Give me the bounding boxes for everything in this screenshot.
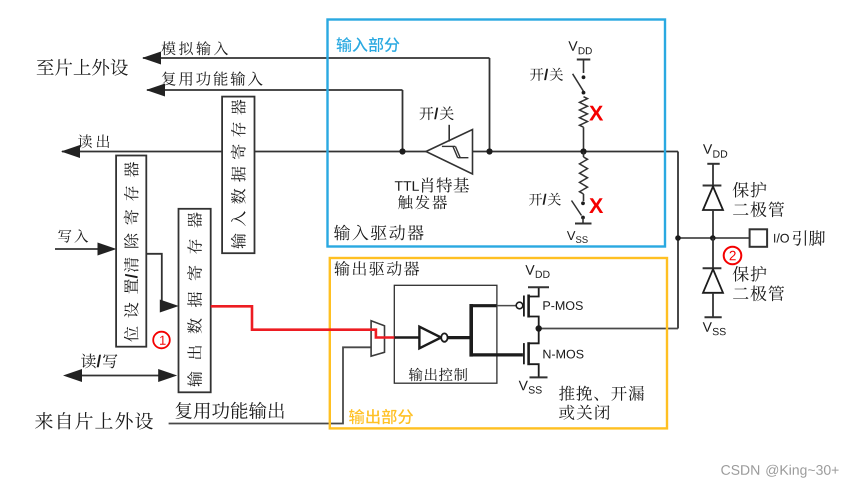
label 开/关 schmitt: [420, 106, 454, 120]
P-MOS channel bar: [527, 295, 530, 318]
schmitt trigger triangle: [426, 130, 473, 175]
label I/O 引脚: [774, 233, 789, 242]
wire alternate-function-input line: [147, 89, 403, 91]
input section frame (blue): [328, 20, 666, 247]
VDD label P-MOS: [525, 265, 534, 275]
label 保护 (lower): [733, 266, 767, 282]
label 至片上外设: [37, 59, 128, 76]
wire analog-input vertical drop: [489, 58, 491, 152]
arrowhead bit-set elbow into output data register: [160, 300, 179, 313]
VDD label protection diode: [703, 144, 712, 154]
wire SW2 to VSS: [582, 218, 584, 224]
wire inverter output (thick): [448, 336, 472, 339]
P-MOS source stub: [530, 287, 539, 296]
N-MOS gate bar: [523, 343, 525, 364]
arrowhead read/write left: [63, 369, 82, 382]
label 来自片上外设: [35, 412, 153, 430]
wire mos drain node to I/O bus: [539, 328, 678, 330]
VSS label protection diode: [703, 322, 712, 332]
label TTL肖特基: [395, 181, 419, 191]
wire R1 to input node: [583, 127, 585, 151]
VDD rail bar diode D1: [707, 163, 719, 165]
diode D1 triangle: [703, 187, 723, 211]
P-MOS drain stub: [530, 317, 539, 329]
label 触发器: [398, 195, 447, 209]
label N-MOS: [543, 350, 583, 359]
VSS label N-MOS: [519, 381, 528, 391]
I/O pin pad square: [750, 229, 768, 247]
node drain junction: [536, 325, 542, 331]
label 输出驱动器: [334, 261, 419, 276]
label 开/关 pull-up switch: [530, 68, 563, 81]
P-MOS gate bar: [523, 296, 525, 317]
switch SW2 lever: [572, 201, 582, 216]
diode D1 cathode bar: [703, 185, 722, 187]
label 推挽、开漏: [559, 386, 644, 401]
wire I/O line to diode D2: [712, 238, 714, 268]
circled 1 marker: [153, 332, 170, 349]
inverter U2 triangle: [419, 327, 441, 349]
label 二极管 (lower): [733, 286, 784, 302]
diode D2 triangle: [703, 269, 723, 293]
schmitt on/off control stem: [448, 125, 450, 142]
label 或关闭: [559, 405, 609, 420]
resistor R2 pull-down: [580, 157, 588, 194]
label 复用功能输入: [162, 71, 263, 86]
label 输出数据寄存器 (vertical): [187, 212, 202, 386]
VDD label pull-up: [568, 41, 577, 51]
mux selector trapezoid: [371, 321, 384, 357]
watermark CSDN @King~30+: [721, 465, 838, 478]
label 输入部分: [337, 37, 400, 52]
wire diode D1 to I/O line: [712, 210, 714, 238]
switch SW1 lower contact dot: [582, 91, 586, 95]
arrowhead read/write right: [158, 369, 177, 382]
wire VDD to diode D1: [712, 164, 714, 186]
output section frame (yellow): [330, 258, 667, 428]
resistor R1 pull-up: [580, 97, 588, 128]
red X pull-up disabled: [589, 106, 603, 121]
wire red output-data path: [211, 306, 396, 337]
wire alternate-function-output line: [169, 347, 371, 423]
diode D2 cathode bar: [703, 267, 722, 269]
label 保护 (upper): [733, 182, 767, 198]
gate drive bottom arm (thick): [470, 353, 523, 356]
node analog-input junction: [486, 148, 492, 154]
label 二极管 (upper): [733, 202, 784, 218]
N-MOS drain stub: [530, 329, 539, 344]
P-MOS gate bubble: [516, 302, 523, 309]
wire to P-MOS gate bubble: [497, 305, 517, 307]
VDD rail bar pull-up: [577, 59, 591, 61]
label 写入: [58, 229, 88, 242]
arrowhead write-in: [98, 243, 117, 256]
register box 输出数据寄存器: [179, 209, 211, 392]
label P-MOS: [543, 301, 582, 310]
gate drive top arm (thick): [470, 304, 497, 307]
label 位设置/清除寄存器 (vertical): [124, 162, 139, 342]
wire R2 to switch SW2: [583, 194, 585, 201]
VSS rail bar pull-down: [575, 223, 592, 225]
register box 位设置/清除寄存器: [116, 156, 146, 347]
wire I/O pad line: [678, 237, 750, 239]
wire write-in line: [55, 248, 112, 250]
node I/O bus junction: [675, 235, 681, 241]
node alternate-function-input junction: [399, 148, 405, 154]
circled 2 marker: [724, 247, 742, 265]
switch SW1 lever: [573, 74, 584, 91]
wire I/O vertical bus: [677, 152, 679, 329]
red X pull-down disabled: [589, 198, 603, 213]
wire input-register to schmitt trigger: [254, 151, 427, 153]
label 开/关 pull-down switch: [529, 193, 561, 206]
switch SW2 lower contact dot: [581, 216, 585, 220]
arrowhead analog-input to on-chip peripherals: [142, 52, 161, 65]
VSS rail bar N-MOS: [530, 376, 548, 378]
VSS label pull-down: [567, 231, 576, 240]
node pull junction: [580, 148, 586, 154]
label 复用功能输出: [176, 402, 285, 419]
schmitt hysteresis mark: [442, 145, 455, 147]
node diode junction: [710, 235, 716, 241]
switch SW1 upper contact dot: [582, 75, 586, 79]
wire read-out line: [62, 151, 223, 153]
label 模拟输入: [161, 41, 228, 55]
VSS rail bar diode D2: [705, 316, 722, 318]
wire schmitt trigger to I/O column: [472, 151, 679, 153]
label 输出控制: [409, 368, 467, 382]
label 输入数据寄存器 (vertical): [231, 100, 246, 249]
switch SW2 upper contact dot: [581, 201, 585, 205]
label 读出: [78, 134, 109, 148]
label 输入驱动器: [334, 225, 424, 241]
gate drive bracket vertical: [469, 304, 473, 357]
N-MOS channel bar: [527, 342, 530, 365]
arrowhead alternate-function-input: [146, 84, 165, 97]
wire read/write double-headed line: [66, 375, 174, 377]
wire input node to R2: [583, 152, 585, 158]
wire inverter input: [394, 336, 420, 339]
output control box: [394, 285, 497, 383]
VDD rail bar P-MOS: [528, 286, 549, 288]
inverter U2 bubble: [441, 333, 447, 341]
wire bit-set/clear elbow: [146, 254, 165, 306]
arrowhead read-out: [61, 145, 80, 158]
label 读/写: [81, 354, 117, 369]
register box 输入数据寄存器: [222, 97, 254, 254]
label 输出部分: [349, 409, 413, 424]
wire analog-input line: [143, 57, 490, 59]
wire alternate-function-input vertical drop: [402, 90, 404, 152]
wire diode D2 to VSS: [712, 293, 714, 318]
N-MOS source stub: [530, 364, 539, 376]
